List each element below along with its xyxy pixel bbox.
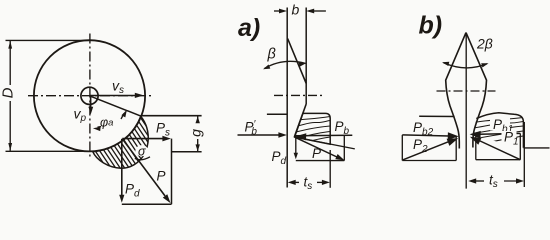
label P_b2 <box>413 120 434 138</box>
tooth a right side line (b extension) <box>305 8 307 105</box>
kerf bottom line a <box>295 137 355 149</box>
wheel circle (grinding wheel / saw blade) <box>34 40 145 151</box>
force P'_b arrow <box>238 132 287 138</box>
sigma angle arc <box>135 157 150 160</box>
label P_b1 <box>493 117 513 135</box>
svg-text:a): a) <box>238 14 260 42</box>
label P_2 <box>413 137 428 155</box>
vector v_s arrow <box>90 93 144 98</box>
force rectangle right (P_1 components) <box>476 133 521 159</box>
angle 2beta arc with arrows <box>442 62 489 68</box>
label t_s a <box>304 175 313 193</box>
tooth a bevel edge <box>288 39 307 84</box>
label P_b <box>335 119 350 137</box>
label P_d a <box>272 149 287 167</box>
svg-text:vs: vs <box>112 78 124 97</box>
label P_d <box>125 182 140 200</box>
svg-text:σ: σ <box>138 144 146 158</box>
tooth b outline right edge <box>466 33 487 148</box>
force P_b arrow <box>296 133 353 140</box>
svg-text:ts: ts <box>489 173 498 191</box>
dimension D extension line bottom <box>6 150 88 152</box>
tooth a cutting face slant <box>294 104 306 137</box>
dimension t_s a with arrows <box>288 150 331 188</box>
force P_2 arrow <box>403 138 458 160</box>
dimension g line with arrows <box>196 116 200 151</box>
svg-text:Ps: Ps <box>156 121 170 139</box>
force parallelogram right edge <box>171 139 173 205</box>
label phi_a <box>100 116 113 130</box>
force rectangle left (P_2 components) <box>402 135 456 161</box>
kerf bottom line b right <box>523 147 549 149</box>
label a) <box>238 14 260 42</box>
dimension D extension line top <box>6 39 92 41</box>
svg-text:g: g <box>188 129 204 137</box>
tooth a centerline dash-dot <box>274 94 324 96</box>
wheel bore circle <box>81 87 98 104</box>
angle phi_a annotation arrows <box>93 110 127 131</box>
force parallelogram bottom edge <box>122 203 172 205</box>
label b) <box>419 12 443 40</box>
dimension t_s b with arrows <box>468 178 524 183</box>
label P <box>157 169 166 184</box>
svg-text:2β: 2β <box>476 36 493 52</box>
tooth b outline left edge <box>446 33 466 149</box>
svg-text:Pd: Pd <box>125 182 140 200</box>
svg-text:b: b <box>292 2 300 18</box>
left surface line a <box>267 113 287 115</box>
label t_s b <box>489 173 498 191</box>
dimension D line with arrows <box>8 41 12 151</box>
force P arrow a <box>295 137 345 160</box>
vertical centerline <box>89 34 91 158</box>
radius line to cut entry point <box>90 96 142 117</box>
svg-text:Pb: Pb <box>335 119 350 137</box>
label b <box>292 2 300 18</box>
force P_b1 arrow <box>470 131 521 139</box>
label sigma <box>138 144 146 158</box>
halo P_b1 <box>490 118 510 131</box>
svg-text:D: D <box>0 87 17 98</box>
t_s right extension line b <box>523 122 525 187</box>
svg-text:ts: ts <box>304 175 313 193</box>
label D <box>0 87 17 98</box>
tooth a left flank line (also t_s extension) <box>286 8 288 188</box>
label P_s <box>156 121 170 139</box>
svg-text:P: P <box>312 146 321 161</box>
left surface line b <box>419 115 454 117</box>
halo P_1 <box>502 131 517 143</box>
tooth b dash-dot centerline horizontal <box>437 90 496 92</box>
force P_s arrow <box>122 136 171 142</box>
dimension b line with arrows <box>274 9 326 14</box>
force P_d arrow <box>119 139 124 203</box>
machined level line right <box>172 151 202 153</box>
force rectangle a <box>294 135 345 160</box>
svg-text:β: β <box>267 47 276 63</box>
label v_s <box>112 78 124 97</box>
wood block a with grain <box>293 113 330 144</box>
label 2beta <box>476 36 493 52</box>
label P a <box>312 146 321 161</box>
angle beta arc with arrows <box>263 61 306 69</box>
label P_1 <box>504 130 519 148</box>
vector v_p arrow <box>88 96 93 114</box>
svg-text:vp: vp <box>74 106 87 125</box>
label g <box>188 129 204 137</box>
force P_1 arrow <box>470 137 520 160</box>
svg-text:P: P <box>157 169 166 184</box>
white halo for sigma <box>135 145 148 156</box>
label v_p <box>74 106 87 125</box>
wood block b right with grain <box>472 113 523 148</box>
force P resultant arrow <box>122 139 170 203</box>
tooth b center line <box>465 33 467 189</box>
svg-text:b): b) <box>419 12 443 40</box>
force P_b2 arrow <box>402 132 459 140</box>
label beta <box>267 47 276 63</box>
chip crescent hatched region <box>55 104 217 172</box>
svg-text:φa: φa <box>100 116 113 130</box>
workpiece top surface line <box>142 115 202 117</box>
label P'_b <box>245 119 258 138</box>
horizontal centerline <box>28 95 152 97</box>
svg-text:Pd: Pd <box>272 149 287 167</box>
